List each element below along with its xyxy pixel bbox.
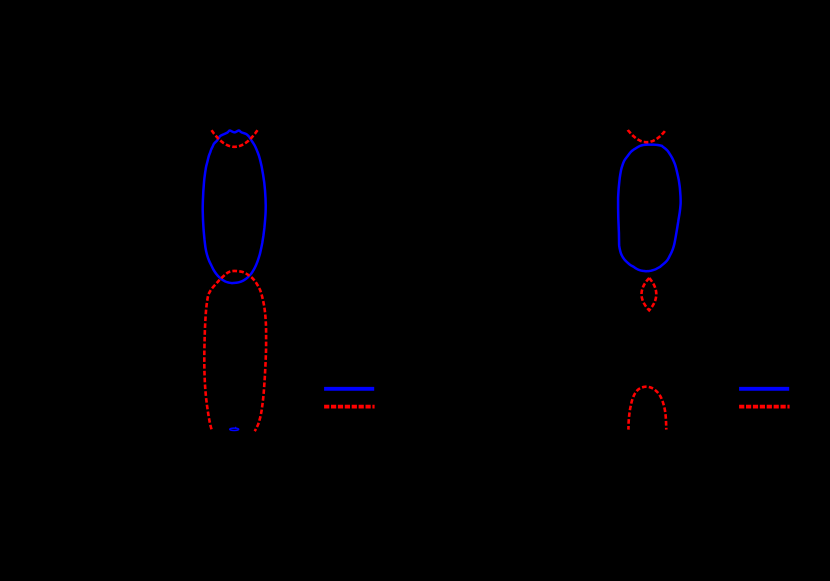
- right panel: red dashed arch: [628, 387, 666, 430]
- left legend: red dashed sample: [324, 405, 375, 409]
- left panel: red dashed upper circulating arc: [212, 130, 258, 147]
- right legend: blue solid sample: [739, 387, 789, 391]
- right legend: red dashed sample: [739, 405, 790, 409]
- left panel: blue libration curve: [203, 131, 266, 284]
- right panel: red dashed lens: [642, 278, 657, 310]
- right panel: blue libration curve: [618, 145, 681, 272]
- left panel: tiny blue island at bottom: [230, 428, 239, 430]
- right panel: red dashed upper arc: [628, 130, 666, 142]
- left panel: red dashed lower island: [204, 271, 266, 431]
- left legend: blue solid sample: [324, 387, 374, 391]
